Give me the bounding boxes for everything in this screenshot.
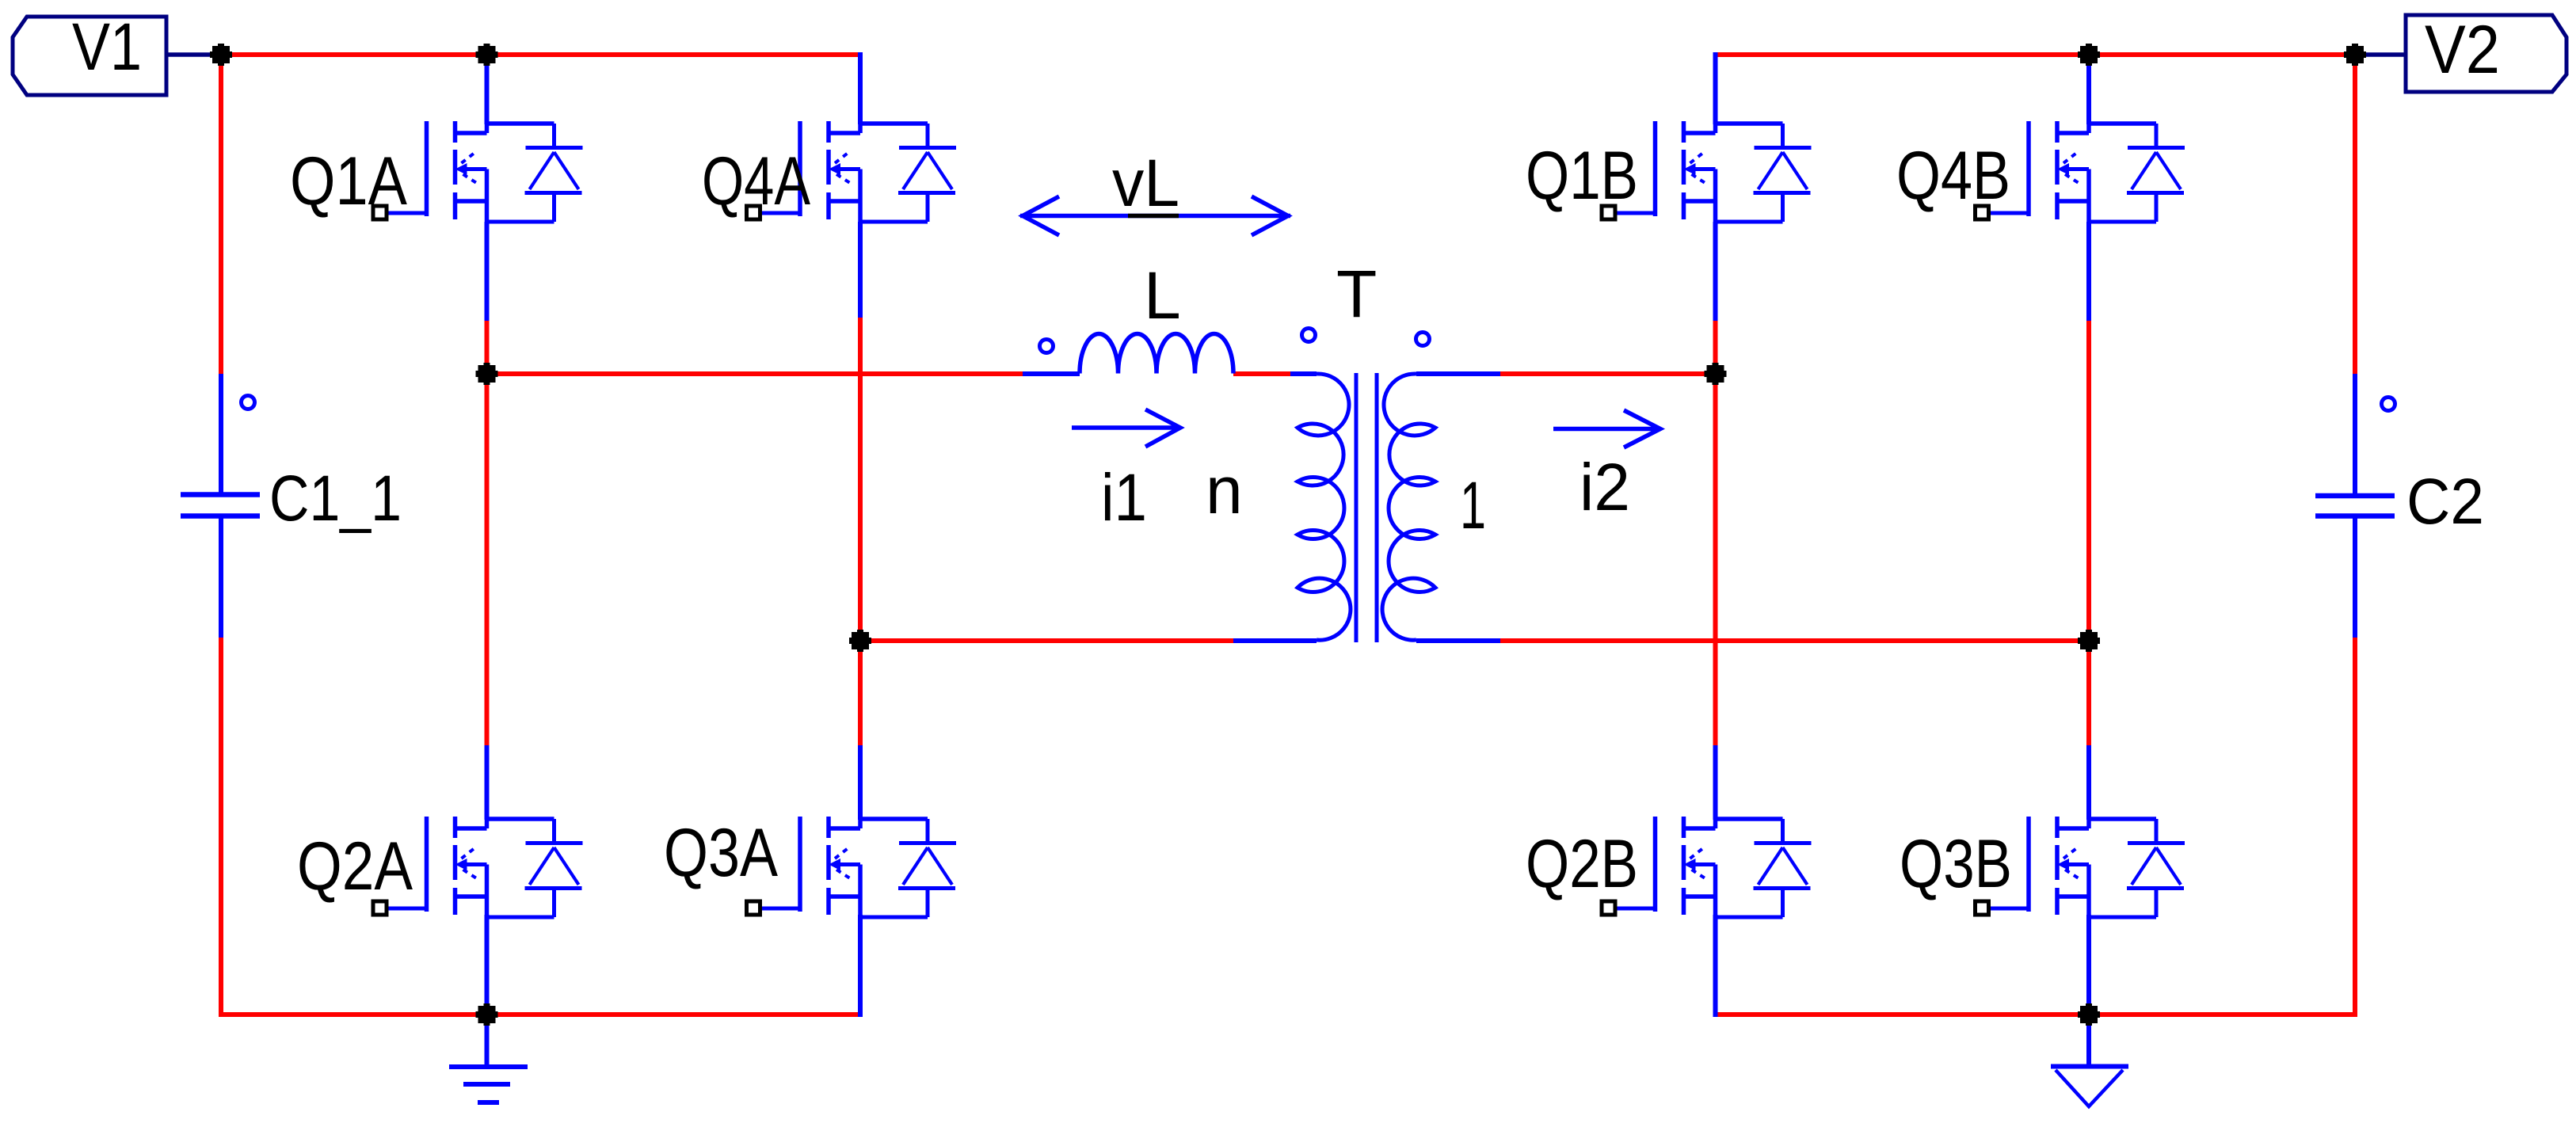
svg-text:n: n (1206, 453, 1243, 527)
svg-text:i2: i2 (1580, 450, 1630, 524)
wire secondary top (1500, 371, 1716, 376)
inductor L (1080, 333, 1233, 373)
node phase A+ junction (476, 363, 498, 385)
wire Q2A source lead (485, 915, 490, 1015)
svg-text:vL: vL (1112, 146, 1179, 220)
wire Q2B drain red (1713, 374, 1718, 745)
node phase B- junction (2078, 630, 2100, 652)
arrow vL (1020, 196, 1290, 235)
wire top rail right (1716, 52, 2356, 57)
wire Q1A source red (485, 321, 490, 374)
svg-text:T: T (1336, 257, 1377, 331)
node ground right junction (2078, 1003, 2100, 1026)
wire Q4B drain lead (2086, 52, 2091, 124)
wire secondary bottom (1500, 638, 2089, 643)
transformer secondary dot (1416, 333, 1430, 346)
wire C2 bottom lead (2353, 516, 2357, 638)
node phase B+ junction (1705, 363, 1727, 385)
transformer T core (1356, 373, 1377, 642)
wire Q4A source lead (858, 222, 863, 318)
node ground left junction (476, 1003, 498, 1026)
ground left (449, 1067, 528, 1102)
svg-text:Q3B: Q3B (1900, 826, 2012, 902)
capacitor C1_1 (181, 495, 260, 516)
wire ground left lead (485, 1015, 490, 1067)
wire Q4A source red (858, 318, 863, 641)
svg-text:V1: V1 (72, 10, 142, 84)
svg-text:1: 1 (1460, 468, 1486, 543)
terminal V1 (13, 17, 166, 95)
wire V1 stub (166, 52, 214, 57)
wire C2 top lead (2353, 374, 2357, 496)
svg-text:Q2B: Q2B (1526, 826, 1638, 902)
transistor Q3A (747, 817, 957, 917)
wire Q4A drain lead (858, 52, 863, 124)
node Q4B drain junction (2078, 44, 2100, 66)
node phase A- junction (849, 630, 871, 652)
wire secondary top lead (1416, 371, 1500, 376)
wire Q1B drain lead (1713, 52, 1718, 124)
transistor Q1B (1602, 121, 1812, 222)
transformer primary dot (1302, 329, 1316, 342)
wire L to transformer (1233, 371, 1290, 376)
wire Q3B source lead (2086, 915, 2091, 1015)
wire Q2A drain red (485, 374, 490, 745)
transistor Q2A (373, 817, 583, 917)
wire Q2B source lead (1713, 915, 1718, 1017)
svg-text:Q4A: Q4A (702, 143, 811, 219)
transistor Q3B (1976, 817, 2185, 917)
wire phase A+ (487, 371, 1023, 376)
wire top rail left (221, 52, 863, 57)
wire Q3A source lead (858, 915, 863, 1017)
svg-text:Q1B: Q1B (1526, 138, 1638, 214)
wire C1 lower red (219, 638, 223, 1017)
svg-text:V2: V2 (2425, 12, 2500, 88)
transistor Q2B (1602, 817, 1812, 917)
wire C1 bottom lead (219, 516, 223, 638)
wire Q3A drain lead (858, 745, 863, 820)
node Q1A drain junction (476, 44, 498, 66)
capacitor C2 (2315, 496, 2395, 516)
wire vL underline artifact (1128, 214, 1179, 219)
transformer T primary winding (1298, 374, 1351, 640)
transistor Q1A (373, 121, 583, 222)
wire Q4B source red (2086, 321, 2091, 641)
wire Q2B drain lead (1713, 745, 1718, 820)
terminal V2 (2406, 15, 2566, 92)
wire Q4B source lead (2086, 222, 2091, 321)
wire C1 top lead (219, 374, 223, 495)
svg-text:Q1A: Q1A (290, 143, 408, 219)
wire Q3B drain red (2086, 641, 2091, 745)
svg-text:Q3A: Q3A (664, 815, 779, 891)
wire C2 lower red (2353, 638, 2357, 1017)
wire bottom rail left (219, 1012, 860, 1017)
transformer T secondary winding (1382, 374, 1435, 640)
transistor Q4A (747, 121, 957, 222)
wire Q2A drain lead (485, 745, 490, 820)
svg-text:Q4B: Q4B (1896, 138, 2010, 214)
wire Q3A drain red (858, 641, 863, 745)
wire primary top lead (1290, 371, 1317, 376)
arrow i1 (1072, 409, 1180, 447)
svg-text:i1: i1 (1101, 460, 1147, 535)
ground right (2051, 1064, 2128, 1069)
wire ground right lead (2086, 1015, 2091, 1064)
wire primary bottom (860, 638, 1233, 643)
wire Q1B source red (1713, 321, 1718, 374)
node V2 junction (2344, 44, 2366, 66)
svg-text:L: L (1144, 258, 1181, 333)
svg-text:Q2A: Q2A (297, 828, 413, 904)
wire C1 upper red (219, 55, 223, 375)
wire bottom rail right (1716, 1012, 2356, 1017)
wire secondary bottom lead (1416, 638, 1500, 643)
arrow i2 (1553, 410, 1660, 447)
wire Q1A drain lead (485, 52, 490, 124)
wire C2 upper red (2353, 55, 2357, 374)
wire Q1B source lead (1713, 222, 1718, 321)
svg-text:C1_1: C1_1 (269, 463, 402, 535)
wire primary bottom lead (1233, 638, 1317, 643)
svg-text:C2: C2 (2406, 466, 2484, 538)
transistor Q4B (1976, 121, 2185, 222)
wire Q3B drain lead (2086, 745, 2091, 820)
wire L left lead (1023, 371, 1080, 376)
wire Q1A source lead (485, 222, 490, 321)
wire V2 stub (2358, 52, 2406, 57)
node V1 junction (210, 44, 232, 66)
